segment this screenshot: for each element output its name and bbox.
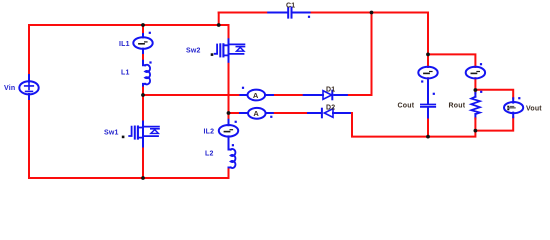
voltage source Vin	[19, 75, 38, 99]
diode D2	[308, 109, 352, 118]
svg-text:C1: C1	[286, 3, 295, 10]
node Sw2 / IL2 / wire2	[227, 111, 231, 115]
node L1 / Sw1 / wire1	[141, 93, 145, 97]
wire top rail y=12.5 right of C1	[312, 13, 428, 55]
diode D1	[304, 91, 349, 100]
wire left rail (Vin column)	[28, 25, 30, 178]
wire L1 bottom	[142, 88, 144, 95]
node top rail / D1 riser	[370, 11, 374, 15]
ammeter A2	[240, 108, 275, 119]
svg-text:Cout: Cout	[398, 102, 415, 109]
wire Rout top to Vout branch y=89.8	[475, 90, 513, 99]
svg-text:L1: L1	[121, 70, 130, 77]
transistor Sw2 (MOSFET)	[211, 39, 245, 64]
wire Rout sensor column	[474, 78, 476, 93]
wire IL1 column top	[142, 25, 144, 61]
svg-text:D2: D2	[326, 105, 335, 112]
resistor Rout	[471, 93, 480, 118]
capacitor C1	[268, 8, 311, 18]
wire Cout bottom	[427, 120, 429, 137]
wire Sw1 column	[142, 95, 144, 178]
wire D1 to top rail	[349, 13, 372, 96]
node bottom rail / Sw1	[141, 176, 145, 180]
wire vertical stub to top rail x=218.7	[218, 13, 220, 26]
svg-text:Sw2: Sw2	[186, 48, 201, 55]
current sensor on Cout branch	[418, 67, 437, 79]
svg-text:A: A	[253, 91, 259, 100]
node Cout bottom	[426, 135, 430, 139]
voltmeter Vout	[504, 98, 523, 117]
svg-text:Rout: Rout	[449, 102, 466, 109]
wire top rail left section y=25	[29, 24, 229, 26]
wire D2 to output bottom	[352, 113, 513, 137]
node Rout bottom	[474, 129, 478, 133]
inductor L2	[229, 140, 236, 169]
node sensors link	[426, 53, 430, 57]
wire between A2 and D2	[275, 112, 308, 114]
node junction dots	[141, 11, 477, 180]
transistor Sw1 (MOSFET)	[122, 122, 159, 147]
svg-text:A: A	[253, 109, 259, 118]
current sensor on Rout branch	[466, 67, 485, 79]
node Rout top / Vout	[474, 88, 478, 92]
wire Sw2 column top	[228, 25, 230, 39]
svg-text:L2: L2	[205, 151, 214, 158]
wire Sw2 column bottom to junction	[228, 64, 230, 120]
svg-text:Sw1: Sw1	[104, 130, 119, 137]
svg-text:D1: D1	[326, 87, 335, 94]
wire mid wire1 y=95	[143, 94, 240, 96]
current sensor IL2	[219, 120, 238, 140]
ammeter A1	[240, 90, 275, 101]
wire sensors top link y=54.4	[428, 54, 475, 67]
inductor L1	[143, 61, 150, 88]
current sensor IL1	[133, 34, 152, 53]
wire bottom rail	[29, 177, 229, 179]
wire mid wire2 y=113	[229, 112, 241, 114]
svg-text:IL2: IL2	[204, 129, 215, 136]
wire between A1 and D1	[275, 94, 304, 96]
svg-text:Vout: Vout	[526, 106, 542, 113]
wire Cout sensor column	[427, 54, 429, 80]
wire top rail y=12.5 left of C1	[219, 12, 269, 14]
node top wire / IL1	[141, 23, 145, 27]
wire Rout bottom	[474, 118, 476, 130]
svg-text:IL1: IL1	[119, 41, 130, 48]
polarity dots (blue)	[149, 16, 521, 147]
capacitor Cout	[421, 81, 435, 120]
svg-text:Vin: Vin	[4, 85, 15, 92]
wire L2 bottom	[228, 169, 230, 178]
node top wire / top rail stub	[217, 23, 221, 27]
